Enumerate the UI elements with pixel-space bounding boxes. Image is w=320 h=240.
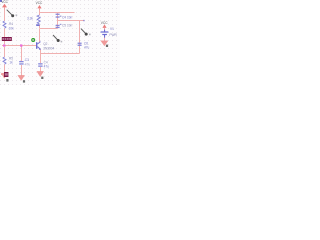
svg-text:C4 10n: C4 10n — [62, 15, 73, 19]
svg-text:VCC: VCC — [101, 21, 108, 25]
svg-text:3.3k: 3.3k — [27, 16, 33, 20]
svg-text:47u: 47u — [25, 62, 31, 66]
svg-text:10k: 10k — [9, 26, 15, 30]
svg-text:47u: 47u — [84, 46, 90, 50]
svg-text:C5 10n: C5 10n — [62, 24, 73, 28]
svg-text:VCC: VCC — [36, 1, 43, 5]
svg-text:1k: 1k — [9, 60, 13, 64]
svg-text:VCC: VCC — [1, 0, 8, 4]
svg-text:2N3904: 2N3904 — [43, 46, 54, 50]
svg-text:V1: V1 — [110, 27, 114, 31]
svg-text:PWR: PWR — [109, 33, 117, 37]
svg-text:47u: 47u — [44, 65, 50, 69]
